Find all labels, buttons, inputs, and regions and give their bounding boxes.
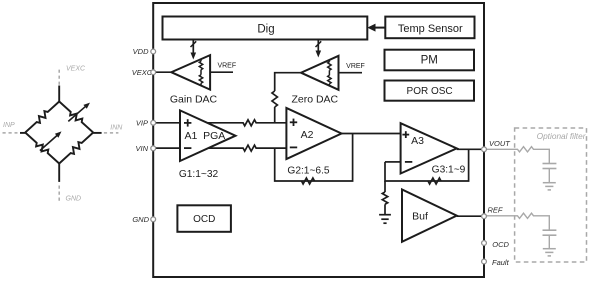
svg-text:POR OSC: POR OSC: [407, 86, 453, 97]
svg-text:G2:1~6.5: G2:1~6.5: [287, 165, 330, 176]
svg-text:REF: REF: [488, 206, 503, 215]
svg-text:OCD: OCD: [193, 214, 215, 225]
svg-text:VREF: VREF: [346, 63, 365, 70]
svg-text:INN: INN: [110, 125, 123, 132]
svg-text:Fault: Fault: [492, 258, 510, 267]
svg-text:VDD: VDD: [133, 47, 149, 56]
svg-text:G3:1~9: G3:1~9: [432, 164, 466, 175]
svg-text:Gain DAC: Gain DAC: [170, 94, 218, 106]
svg-text:PGA: PGA: [203, 130, 225, 142]
svg-text:VEXC: VEXC: [132, 68, 153, 77]
svg-text:VIN: VIN: [135, 144, 148, 153]
svg-text:Zero DAC: Zero DAC: [291, 94, 338, 106]
svg-text:G1:1~32: G1:1~32: [179, 169, 219, 180]
svg-text:VOUT: VOUT: [489, 139, 511, 148]
svg-text:OCD: OCD: [492, 240, 509, 249]
svg-text:A3: A3: [411, 135, 424, 147]
svg-text:GND: GND: [132, 215, 149, 224]
svg-text:VEXC: VEXC: [66, 65, 86, 72]
svg-text:GND: GND: [66, 196, 82, 203]
svg-text:INP: INP: [3, 122, 15, 129]
svg-text:VREF: VREF: [217, 63, 236, 70]
svg-text:Buf: Buf: [412, 211, 428, 223]
svg-text:A2: A2: [301, 129, 314, 141]
svg-text:A1: A1: [184, 130, 197, 142]
svg-text:VIP: VIP: [136, 118, 148, 127]
svg-text:Dig: Dig: [257, 24, 274, 36]
svg-text:Temp Sensor: Temp Sensor: [398, 23, 463, 35]
svg-text:PM: PM: [421, 55, 438, 67]
svg-text:Optional filter: Optional filter: [537, 131, 587, 141]
